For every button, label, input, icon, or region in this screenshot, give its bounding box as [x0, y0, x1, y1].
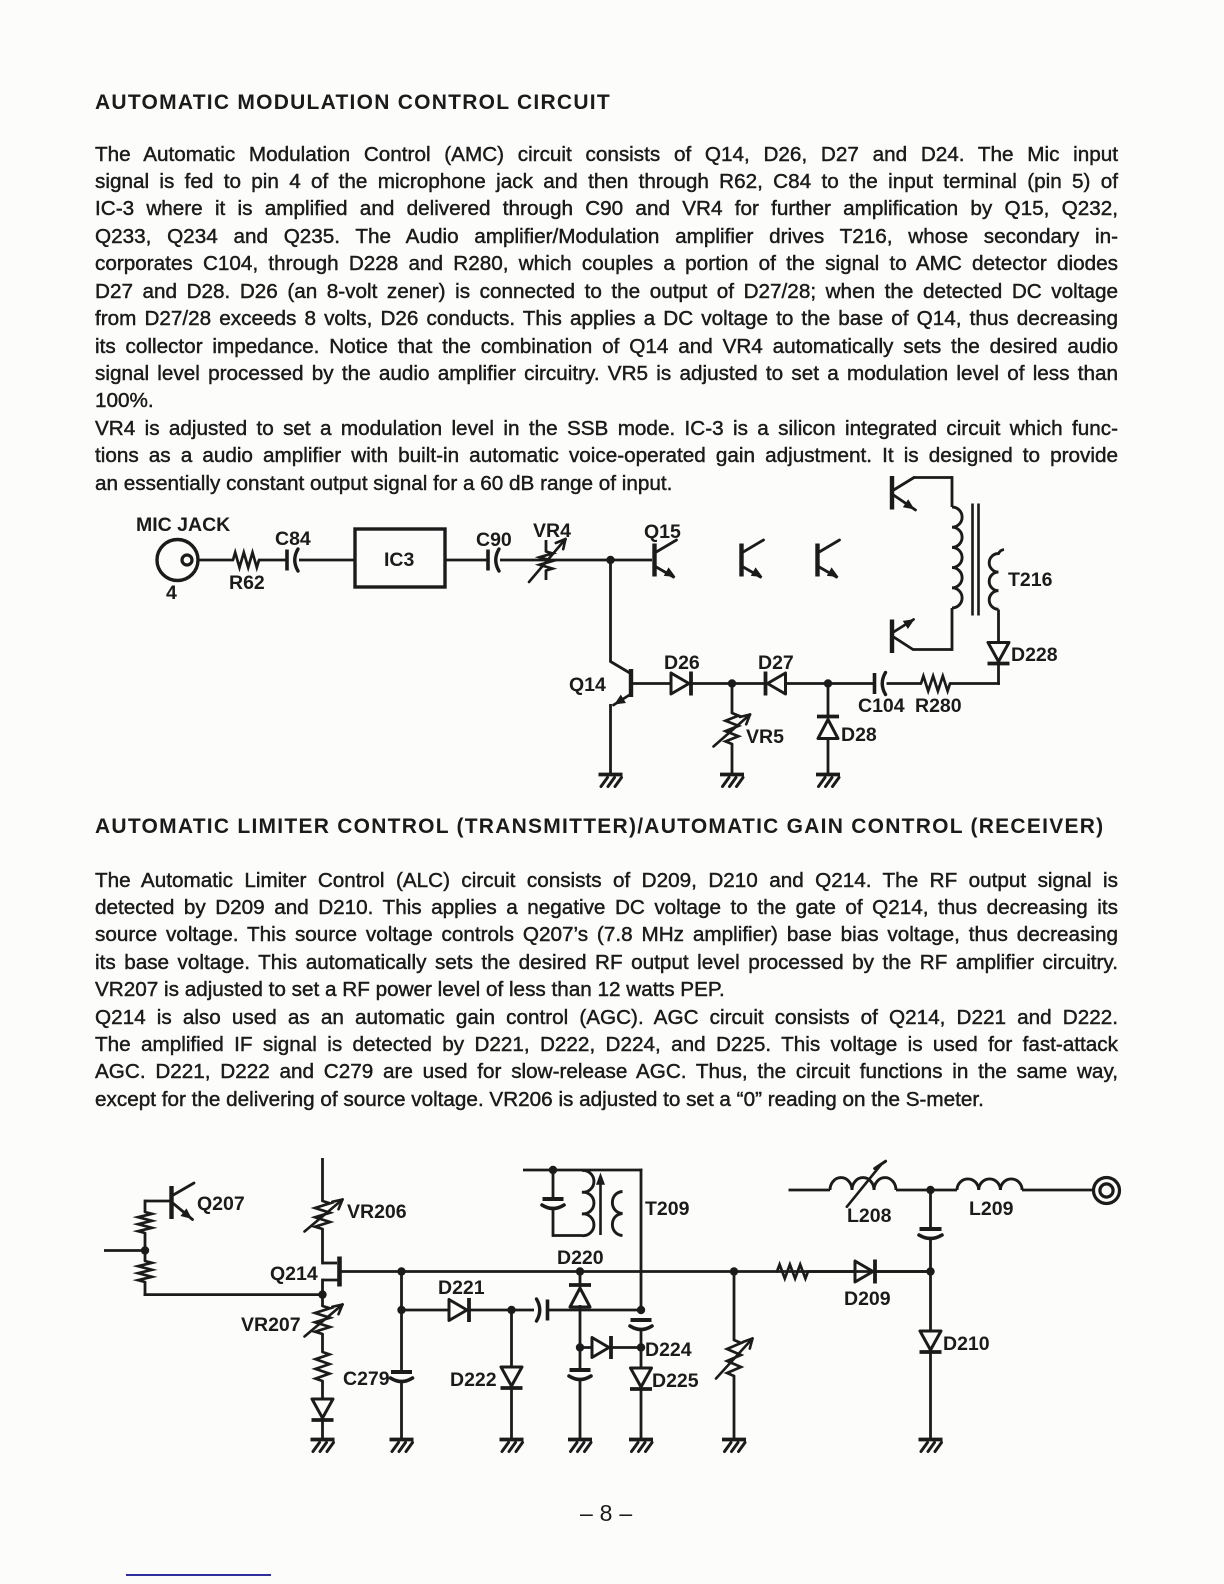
wire node J down to cap — [579, 1348, 582, 1369]
wire cap to node N — [929, 1238, 932, 1272]
capacitor C90 — [476, 529, 512, 571]
wire resistor to diode — [321, 1381, 324, 1399]
svg-text:L208: L208 — [847, 1205, 892, 1227]
wire node G to D221 — [402, 1309, 450, 1312]
wire node M down to VR — [733, 1272, 736, 1341]
wire Q14 to D26 — [631, 682, 671, 685]
wire D220 down to node J — [579, 1305, 582, 1348]
node I junction (rail/D220) — [576, 1267, 584, 1275]
node N junction — [926, 1267, 934, 1275]
transformer T216 primary winding — [952, 507, 962, 608]
paragraph 1 — [95, 141, 1118, 497]
transistor Q214 (FET) — [270, 1257, 340, 1287]
wire Q207 base left — [145, 1200, 172, 1212]
wire C279 to ground — [400, 1381, 403, 1439]
transformer T209 primary winding — [582, 1170, 594, 1235]
potentiometer VR4 — [529, 520, 571, 582]
section title 1 — [95, 91, 611, 115]
wire node J to D224 — [580, 1346, 592, 1349]
op-amp U IC3 box — [355, 529, 445, 587]
diode D27 — [758, 652, 794, 696]
wire T209 cap lead — [552, 1170, 555, 1197]
transformer T209 secondary winding — [612, 1192, 689, 1236]
transformer T209 arrow — [597, 1174, 605, 1235]
diode D209 — [844, 1260, 891, 1311]
wire IC3 to C90 — [445, 559, 487, 562]
transistor Q207 — [172, 1183, 245, 1220]
wire VR5 to ground — [731, 744, 734, 773]
node C junction — [824, 679, 832, 687]
svg-text:L209: L209 — [969, 1198, 1014, 1220]
scan artifact blue line — [126, 1574, 271, 1577]
node L junction (D224 right) — [637, 1343, 645, 1351]
wire node D stub left — [104, 1249, 145, 1252]
svg-text:4: 4 — [166, 582, 177, 604]
node G junction (D221 branch) — [397, 1306, 405, 1314]
resistor (Q207 lower bias) — [138, 1261, 152, 1282]
svg-text:Q15: Q15 — [644, 521, 681, 543]
wire L209 to connector — [1022, 1189, 1094, 1192]
svg-text:C90: C90 — [476, 529, 512, 551]
wire node G down to C279 — [400, 1310, 403, 1370]
wire D228 down to R280 row — [997, 664, 1000, 685]
transistor (driver, lower) — [892, 620, 914, 654]
wire D222 to ground — [510, 1388, 513, 1439]
inductor L209 — [957, 1179, 1022, 1220]
node D junction — [141, 1246, 149, 1254]
wire node D down — [144, 1251, 147, 1262]
page number — [580, 1500, 632, 1527]
wire D221 to node H — [469, 1309, 512, 1312]
node O junction (antenna) — [926, 1186, 934, 1194]
section title 2 — [95, 815, 1104, 839]
capacitor (coupling, D221 branch) — [537, 1299, 548, 1321]
node F junction (rail/C279) — [397, 1267, 405, 1275]
wire L208 to node O — [896, 1189, 957, 1192]
ground under line A — [568, 1440, 592, 1452]
wire D209 to node N — [875, 1270, 931, 1273]
wire C84 to IC3 — [299, 559, 354, 562]
capacitor C279 — [343, 1368, 413, 1390]
wire to node D — [144, 1233, 147, 1251]
wire rail down to node G — [400, 1272, 403, 1311]
wire node N down to D210 — [929, 1272, 932, 1332]
wire D225 to ground — [640, 1389, 643, 1439]
node T junction (T209 top) — [549, 1166, 557, 1174]
capacitor (line B) — [630, 1320, 652, 1330]
svg-text:D28: D28 — [841, 724, 877, 746]
wire VR206 to Q214 drain — [323, 1229, 338, 1264]
node J junction (D224 left) — [576, 1343, 584, 1351]
wire T216 primary bottom to lower driver — [913, 608, 952, 651]
svg-text:VR4: VR4 — [533, 520, 571, 542]
transistor (unlabeled) Q232 — [742, 540, 764, 577]
svg-text:D222: D222 — [450, 1369, 497, 1391]
wire node O down to cap — [929, 1190, 932, 1227]
node M junction (rail/VR) — [730, 1267, 738, 1275]
potentiometer (S-meter adj) — [716, 1339, 753, 1379]
diode D224 — [592, 1336, 692, 1361]
resistor (Q207 upper bias) — [138, 1212, 152, 1233]
node A junction — [606, 556, 614, 564]
node H junction — [507, 1306, 515, 1314]
wire node E to VR207 — [321, 1295, 324, 1306]
capacitor (detector) — [919, 1229, 942, 1239]
svg-text:VR206: VR206 — [347, 1201, 407, 1223]
transistor Q14 — [569, 662, 631, 706]
svg-text:R280: R280 — [915, 695, 962, 717]
pin 4 label — [166, 582, 177, 604]
main rail from Q214 — [341, 1270, 929, 1273]
svg-text:D221: D221 — [438, 1277, 485, 1299]
wire C90 to node A — [500, 559, 652, 562]
capacitor (T209 tank) — [542, 1199, 564, 1209]
svg-text:R62: R62 — [229, 572, 265, 594]
svg-text:MIC JACK: MIC JACK — [136, 514, 230, 536]
potentiometer VR5 — [714, 713, 785, 748]
wire VR206 top stub — [321, 1158, 324, 1201]
wire L208 left stub — [789, 1189, 831, 1192]
connector (antenna jack) — [1094, 1178, 1120, 1204]
resistor R62 — [229, 553, 265, 595]
node K junction (line B / branch) — [637, 1306, 645, 1314]
diode D222 — [450, 1367, 523, 1391]
transformer T216 secondary winding — [989, 550, 1052, 610]
wire line B (T209 right side) — [640, 1169, 643, 1310]
wire cap to ground — [579, 1379, 582, 1439]
wire node B to D27 — [732, 682, 766, 685]
wire resistor to D209 — [808, 1270, 855, 1273]
wire VR207 to resistor — [321, 1334, 324, 1352]
wire D27 to node C — [786, 682, 829, 685]
ground under VR5 — [720, 775, 744, 787]
ground under Q14 — [599, 775, 623, 787]
transformer T209 top line — [523, 1169, 642, 1172]
wire coupling cap to line B — [549, 1309, 641, 1312]
svg-text:D228: D228 — [1011, 644, 1058, 666]
resistor (rail) — [777, 1265, 808, 1279]
transistor (driver, upper) — [892, 476, 916, 510]
capacitor C104 — [858, 673, 905, 718]
wire D28 to ground — [827, 739, 830, 774]
wire Q14 emitter down to ground — [609, 704, 612, 773]
connector J1 MIC JACK — [136, 514, 230, 581]
diode D225 — [630, 1368, 699, 1392]
wire line B cap to node L — [640, 1329, 643, 1348]
wire node A down to Q14 base — [609, 560, 612, 662]
diode D220 — [557, 1247, 604, 1307]
svg-text:C279: C279 — [343, 1368, 390, 1390]
wire lower bias to gate rail — [144, 1282, 323, 1296]
diode D210 — [920, 1331, 990, 1355]
ground under VR — [722, 1440, 746, 1452]
svg-text:T216: T216 — [1008, 569, 1053, 591]
node E junction (gate/VR207) — [318, 1290, 326, 1298]
diode D221 — [438, 1277, 485, 1322]
wire mic jack to R62 — [198, 559, 233, 562]
wire node C to C104 — [828, 682, 873, 685]
resistor (source chain) — [316, 1352, 330, 1381]
transistor Q15 — [644, 521, 681, 577]
inductor L208 — [830, 1161, 896, 1227]
ground under D210 — [919, 1440, 943, 1452]
capacitor (AGC filter, left) — [569, 1370, 591, 1380]
diode (source chain) — [312, 1399, 334, 1420]
wire upper driver to T216 primary — [913, 476, 952, 507]
wire node C down to D28 — [827, 684, 830, 716]
ground under D28 — [816, 775, 840, 787]
svg-text:C84: C84 — [275, 528, 311, 550]
svg-text:D26: D26 — [664, 652, 700, 674]
svg-text:D220: D220 — [557, 1247, 604, 1269]
svg-text:VR5: VR5 — [746, 726, 784, 748]
wire node H down to D222 — [510, 1310, 513, 1367]
wire node H to coupling cap — [512, 1309, 535, 1312]
potentiometer VR206 — [305, 1200, 407, 1232]
wire VR to ground — [733, 1376, 736, 1439]
wire node B down to VR5 — [731, 684, 734, 714]
wire D210 to ground — [929, 1352, 932, 1439]
svg-text:IC3: IC3 — [384, 549, 415, 571]
ground under VR207 chain — [311, 1440, 335, 1452]
wire R62 to C84 — [259, 559, 286, 562]
ground under D222 — [500, 1440, 524, 1452]
wire R280 to D228 branch — [950, 682, 1000, 685]
svg-text:D225: D225 — [652, 1370, 699, 1392]
svg-text:D209: D209 — [844, 1288, 891, 1310]
wire diode to ground — [321, 1420, 324, 1439]
wire D26 to node B — [691, 682, 732, 685]
svg-text:Q14: Q14 — [569, 674, 606, 696]
transformer T216 core — [973, 504, 979, 616]
svg-text:VR207: VR207 — [241, 1314, 301, 1336]
diode D228 — [988, 643, 1058, 667]
svg-text:Q207: Q207 — [197, 1193, 245, 1215]
svg-text:D210: D210 — [943, 1333, 990, 1355]
resistor R280 — [915, 676, 962, 717]
node B junction — [728, 679, 736, 687]
wire T216 secondary to D228 — [997, 610, 1000, 643]
svg-text:T209: T209 — [645, 1198, 690, 1220]
capacitor C84 — [275, 528, 311, 571]
wire Q214 source down to gate node — [321, 1279, 324, 1295]
ground under C279 — [390, 1440, 414, 1452]
transistor (unlabeled) Q233 — [818, 540, 840, 577]
svg-text:C104: C104 — [858, 695, 905, 717]
wire T209 cap to bottom line — [553, 1208, 582, 1237]
svg-text:Q214: Q214 — [270, 1263, 318, 1285]
wire node I to D220 — [579, 1272, 582, 1286]
wire node L to D225 — [640, 1348, 643, 1369]
diode D28 — [817, 717, 877, 747]
wire C104 to R280 — [887, 682, 922, 685]
svg-text:D27: D27 — [758, 652, 794, 674]
wire D224 to node K — [611, 1346, 641, 1349]
ground under D225 — [629, 1440, 653, 1452]
diode D26 — [664, 652, 700, 696]
svg-text:D224: D224 — [645, 1339, 692, 1361]
paragraph 2 — [95, 867, 1118, 1114]
potentiometer VR207 — [241, 1305, 343, 1337]
